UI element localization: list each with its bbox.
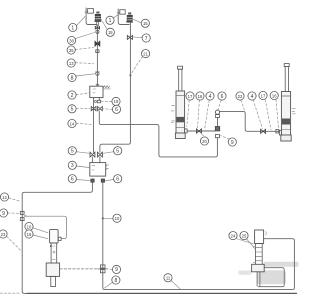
manifold M3 inner marks (92, 166, 95, 170)
callout 19 (112, 97, 120, 105)
node: joint on pipe A (102, 217, 104, 219)
callout 3 (68, 161, 76, 169)
fitting 19: small union below M2 (97, 100, 100, 103)
reservoir block (252, 264, 265, 272)
leader to 24 (236, 239, 254, 244)
leader to 9 bottom (108, 268, 113, 270)
cylinder CL rod cap (178, 66, 183, 69)
svg-text:8: 8 (71, 75, 74, 81)
leader to 16 c (33, 235, 48, 239)
wire: U-return loop at reservoir (258, 268, 284, 287)
svg-text:4: 4 (209, 94, 212, 100)
reservoir stem right (259, 272, 261, 286)
callout 6 lower-right (114, 175, 122, 183)
callout 8 (68, 73, 76, 81)
svg-text:20: 20 (202, 139, 207, 144)
fitting: cross on left pipe upper ring (20, 211, 24, 214)
callout 9 mid (228, 138, 236, 146)
svg-text:14: 14 (70, 121, 75, 126)
node: cross bar (98, 268, 107, 270)
cylinder CR lower line (281, 129, 290, 131)
wire: manifold M2 right outlet stub (98, 98, 100, 101)
bracket B1 tick (85, 11, 88, 13)
node: joint on right pipe (130, 74, 132, 76)
fitting: union on CL pipe (196, 129, 201, 133)
wire: manifold M2 left outlet down to M3 top fitting (93, 98, 95, 153)
wire: tee stack top elbow to right cylinder port (220, 111, 280, 131)
svg-text:12: 12 (2, 195, 7, 200)
leader to 15 right (133, 19, 141, 23)
leader to 23 (7, 236, 21, 250)
cylinder CR collar line (281, 95, 290, 97)
wire: left valve down-pipe (96, 26, 98, 86)
fitting: tee stack ring (216, 115, 220, 118)
svg-text:3: 3 (71, 163, 74, 169)
fitting: M3 top-left union (90, 152, 95, 157)
fitting: cross on pipe A lower (100, 270, 105, 273)
breather stack dividers (255, 248, 262, 261)
manifold M2 (90, 86, 103, 97)
cylinder CL dark band (177, 117, 185, 122)
svg-text:7: 7 (145, 36, 148, 42)
callout 9 bottom (112, 265, 120, 273)
leader to 9 mid (221, 136, 230, 140)
callout 6 lower-left (68, 175, 76, 183)
manifold M2 inner marks (93, 89, 96, 93)
valve V2 nub (128, 12, 131, 14)
bracket B1 mount box (88, 9, 94, 14)
leader to 1 left (77, 17, 86, 26)
leader to 6 lower-left (76, 180, 90, 181)
wire: tee stack internal verticals (217, 118, 219, 127)
manifold M3 side marks (107, 165, 109, 170)
svg-text:6: 6 (116, 177, 119, 183)
leader to 21 (131, 56, 143, 74)
wire: bottom hose B (27, 292, 297, 294)
manifold M3 (90, 163, 106, 177)
svg-text:17: 17 (261, 93, 266, 98)
pump base block (46, 263, 59, 276)
svg-text:2: 2 (71, 93, 74, 99)
callout 2 (68, 91, 76, 99)
leader to 16 b (276, 99, 279, 129)
svg-text:16: 16 (198, 94, 203, 99)
leader to 25 (247, 239, 255, 249)
fitting: V2 union bowtie (127, 35, 132, 39)
svg-text:10: 10 (115, 216, 120, 221)
leader to 9 left (8, 212, 20, 214)
leader to 10 pipe (104, 217, 113, 219)
watermark small bar left (239, 271, 252, 275)
fitting: CR port connector (276, 130, 279, 134)
leader to 8 bottom (105, 282, 113, 288)
leader to 3 (76, 166, 89, 168)
callout 1 left (69, 23, 77, 31)
callout 30 (68, 36, 76, 44)
valve V2 cap bar (127, 15, 133, 17)
svg-text:6: 6 (71, 177, 74, 183)
leader to 35 (75, 48, 93, 50)
leader to 14 (76, 123, 91, 124)
leader to 6 d (218, 100, 221, 110)
leader to 6 mid (103, 108, 112, 111)
callout 23 (0, 230, 7, 238)
callout 7 (142, 34, 150, 42)
callout 35 (67, 46, 75, 54)
wire: pump outlet to cross fitting on pipe A (60, 268, 97, 270)
callout 15 right (141, 19, 149, 27)
svg-text:15: 15 (143, 21, 148, 26)
callout 6 d (218, 92, 226, 100)
leader to 15 left (101, 19, 108, 30)
cylinder CR body (281, 92, 290, 136)
leader to 12 (9, 198, 21, 202)
pump stem (51, 276, 56, 286)
cylinder CR rod (285, 67, 288, 92)
spring on M2 (103, 86, 109, 88)
leader to 19 (102, 100, 112, 102)
svg-text:4: 4 (251, 94, 254, 100)
leader to 16 a (198, 100, 200, 128)
bracket B2 (118, 9, 129, 25)
cylinder CR bottom cap (281, 135, 291, 141)
callout 22 (236, 92, 244, 100)
leader to 5 lower-left (76, 152, 90, 154)
svg-text:1: 1 (71, 25, 74, 31)
callout 16 c (25, 230, 33, 238)
leader to 6 lower-right (105, 180, 113, 181)
leader to 22 (241, 100, 245, 110)
callout 1 right (106, 16, 114, 24)
valve V2 flange (126, 21, 132, 23)
callout 11 (164, 274, 172, 282)
leader to 20 (201, 134, 208, 138)
valve V1 cap bar (95, 14, 101, 16)
cylinder CR side ticks (292, 108, 295, 113)
svg-text:1: 1 (109, 18, 112, 24)
callout 8 bottom (112, 276, 120, 284)
wire: M3 left port down, left and down to bottom line B (22, 182, 92, 293)
callout 9 left (0, 209, 8, 217)
fitting: V1 union bowtie (95, 26, 99, 29)
svg-text:35: 35 (69, 48, 74, 53)
callout 15 left (106, 28, 114, 36)
filler box F1 (255, 230, 264, 244)
wire: left cylinder port to tee stack (187, 130, 215, 132)
callout 17 b (259, 91, 267, 99)
valve V1 body (95, 16, 100, 20)
pump inlet fitting (58, 237, 61, 240)
callout 10 pipe (113, 214, 121, 222)
svg-text:8: 8 (115, 278, 118, 284)
callout 25 (240, 232, 248, 240)
leader to 4 a (205, 100, 209, 128)
svg-text:11: 11 (166, 276, 171, 281)
pump tube (51, 243, 57, 263)
pump side dot (50, 245, 52, 247)
svg-text:9: 9 (2, 211, 5, 217)
wire: stub right into M3 (99, 157, 101, 163)
svg-text:9: 9 (231, 140, 234, 146)
svg-text:13: 13 (69, 61, 74, 66)
callout 16 a (196, 92, 204, 100)
valve V2 stripes (127, 18, 132, 20)
callout 21 (142, 50, 150, 58)
bracket B2 tick (117, 12, 120, 14)
svg-text:21: 21 (143, 51, 148, 56)
fitting: ring lower on left pipe (96, 72, 99, 75)
leader to 5 lower-right (102, 152, 114, 154)
leader to 30 (75, 33, 94, 39)
svg-text:10: 10 (27, 224, 32, 229)
fitting: ball joint on left pipe (96, 30, 99, 33)
wire: thin loop from left pipe cross to pump inlet (24, 216, 66, 238)
leader to 4 b (253, 100, 263, 129)
wire: M3 right port down pipe, bottom line A, right riser to filler box (103, 182, 295, 289)
pump tube marks (52, 246, 55, 259)
leader to 11 (171, 281, 180, 290)
filler box side mark (265, 231, 268, 235)
callout 10 (25, 222, 33, 230)
reservoir stem left (256, 272, 258, 286)
callout 5 lower-left (68, 147, 76, 155)
fitting: M3 top-right union (98, 152, 103, 157)
valve V1 nub (96, 12, 99, 14)
valve V1 stem (97, 22, 99, 26)
fitting: M3 bottom-right elbow (101, 179, 104, 182)
svg-text:19: 19 (114, 99, 119, 104)
fitting: cross on pipe A upper (100, 265, 105, 268)
callout 17 a (186, 92, 194, 100)
leader to 7 (133, 36, 142, 39)
fitting: ring on left pipe (96, 50, 99, 53)
leader to 17 b (265, 99, 271, 129)
callout 24 (229, 232, 237, 240)
leader to 5 mid (76, 108, 90, 110)
svg-text:9: 9 (115, 267, 118, 273)
svg-text:24: 24 (231, 233, 236, 238)
leader to 17 a (187, 100, 189, 127)
callout 5 lower-right (114, 147, 122, 155)
watermark corner mark bottom-left (0, 292, 19, 294)
svg-text:5: 5 (71, 107, 74, 113)
breather stack left stubs (253, 246, 255, 262)
svg-text:23: 23 (1, 232, 6, 237)
svg-text:30: 30 (69, 38, 74, 43)
svg-text:5: 5 (116, 149, 119, 155)
leader to 10 (33, 228, 48, 233)
fitting: union on CR pipe (261, 129, 266, 133)
wire: right valve down-pipe with left turn into M3 (100, 23, 130, 152)
svg-text:22: 22 (238, 94, 243, 99)
svg-text:5: 5 (71, 149, 74, 155)
svg-text:17: 17 (188, 94, 193, 99)
fitting 5a: bowtie below M2 left (91, 107, 96, 111)
cylinder CR port (279, 130, 281, 135)
leader to 8 (76, 74, 95, 76)
node: cross stub (24, 215, 26, 217)
callout 4 a (206, 92, 214, 100)
cylinder CL side ticks (171, 106, 175, 123)
fitting: tee stack cross (215, 127, 219, 131)
leader to 2 (76, 93, 90, 95)
fitting: tee stack lower ring (216, 135, 220, 138)
valve V1 flange (95, 20, 102, 22)
cylinder CL body (176, 91, 185, 133)
callout 4 b (248, 92, 256, 100)
fitting: dark union on left pipe (95, 41, 100, 46)
cylinder CL rod (179, 69, 182, 91)
cylinder CL bottom cap (175, 133, 185, 139)
fitting: cross on left pipe lower ring (20, 218, 24, 221)
svg-text:16: 16 (272, 93, 277, 98)
wire: stub left into M3 (91, 157, 93, 163)
breather stack (255, 244, 262, 265)
callout 20 (200, 137, 208, 145)
pump cylinder body (50, 230, 59, 243)
callout 6 mid (112, 105, 120, 113)
callout 16 b (270, 91, 278, 99)
svg-text:16: 16 (27, 232, 32, 237)
valve V2 body (127, 17, 132, 21)
svg-text:6: 6 (221, 94, 224, 100)
callout 5 mid (68, 105, 76, 113)
svg-text:6: 6 (115, 107, 118, 113)
callout 14 (68, 119, 76, 127)
callout 12 (0, 193, 8, 201)
bracket B1 (86, 8, 97, 25)
fitting 6a: bowtie below M2 right (98, 107, 103, 111)
watermark box (257, 270, 286, 284)
wire: M2 right branch to center tee stack (long Z route) (99, 111, 217, 157)
svg-text:15: 15 (108, 30, 113, 35)
fitting: tee stack elbow ball (215, 110, 219, 114)
cylinder CL collar line (176, 94, 185, 96)
valve V1 stripes (95, 18, 100, 20)
leader to 1 right (113, 14, 119, 18)
cylinder CL port (185, 129, 188, 133)
leader to 13 (75, 62, 93, 65)
bracket B2 mount box (120, 10, 125, 15)
cylinder CL lower line (176, 126, 185, 128)
callout 13 (67, 59, 75, 67)
fitting: M3 bottom-left elbow (91, 179, 94, 182)
cylinder CR dark band (282, 119, 290, 125)
svg-text:25: 25 (242, 233, 247, 238)
cylinder CR rod cap (284, 64, 289, 67)
watermark bar top (264, 262, 299, 267)
